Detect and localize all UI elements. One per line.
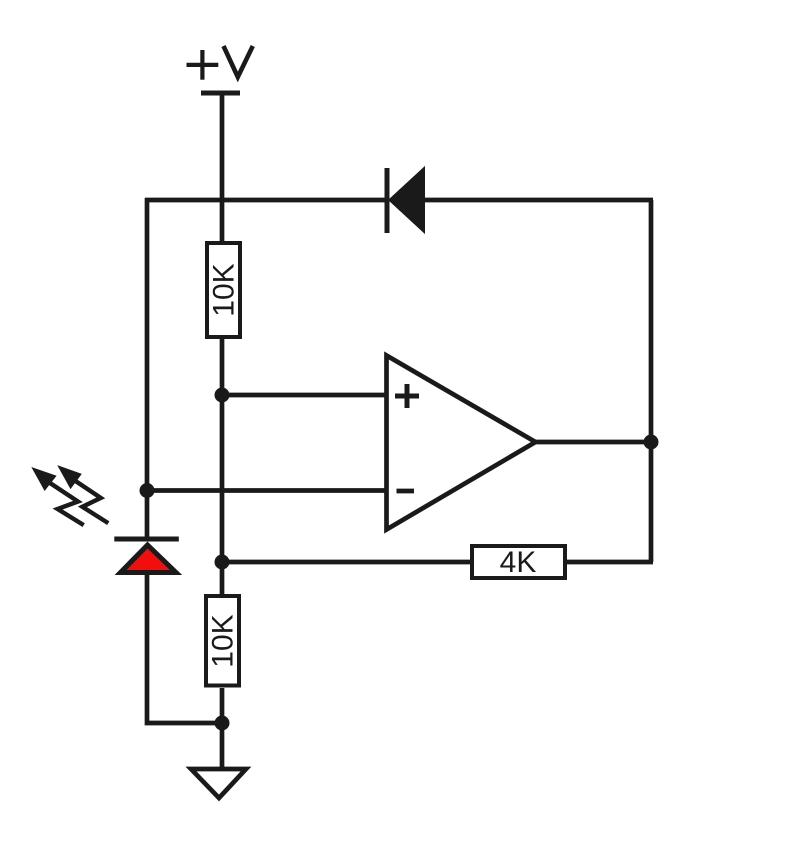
- resistor R2 10K: [206, 596, 240, 686]
- top wire right segment: [423, 198, 653, 203]
- right vertical wire: [649, 200, 654, 562]
- node dot output: [644, 435, 659, 450]
- +V terminal bar: [201, 91, 240, 96]
- feedback wire left segment: [222, 560, 474, 565]
- LED emission arrow 1: [31, 467, 83, 525]
- resistor R1 10K: [207, 243, 241, 337]
- LED emission arrow 2: [57, 465, 108, 523]
- feedback wire right segment: [563, 560, 653, 565]
- wire LED node to - input: [145, 488, 388, 493]
- op-amp U1 body: [387, 356, 536, 530]
- diode D1 cathode bar: [385, 168, 390, 233]
- LED D2 cathode bar: [114, 537, 179, 542]
- svg-text:10K: 10K: [208, 263, 241, 316]
- +V supply label V glyph: [224, 46, 253, 77]
- left vertical wire upper: [145, 198, 150, 540]
- op-amp U1 minus input marker: [397, 489, 415, 494]
- ground symbol: [191, 769, 246, 798]
- left vertical wire lower and bottom run to ground node: [147, 572, 224, 723]
- wire +V to R1: [220, 93, 225, 243]
- diode D1 body: [391, 171, 423, 230]
- LED D2 body: [121, 545, 177, 573]
- wire R2 to ground node: [220, 688, 225, 725]
- wire R1 to R2 (divider): [220, 339, 225, 596]
- wire node A to + input: [222, 393, 388, 398]
- +V supply label plus sign: [187, 50, 219, 80]
- node dot A (+ input tap): [215, 388, 230, 403]
- svg-text:10K: 10K: [207, 614, 240, 667]
- resistor R3 4K: [472, 546, 565, 579]
- node dot feedback tap: [215, 555, 230, 570]
- wire ground node to ground symbol: [220, 723, 225, 769]
- svg-text:4K: 4K: [500, 546, 537, 579]
- node dot ground junction: [215, 716, 230, 731]
- output wire: [536, 440, 653, 445]
- top wire left segment: [145, 198, 388, 203]
- op-amp U1 plus input marker: [395, 384, 419, 408]
- node dot LED / - input: [140, 483, 155, 498]
